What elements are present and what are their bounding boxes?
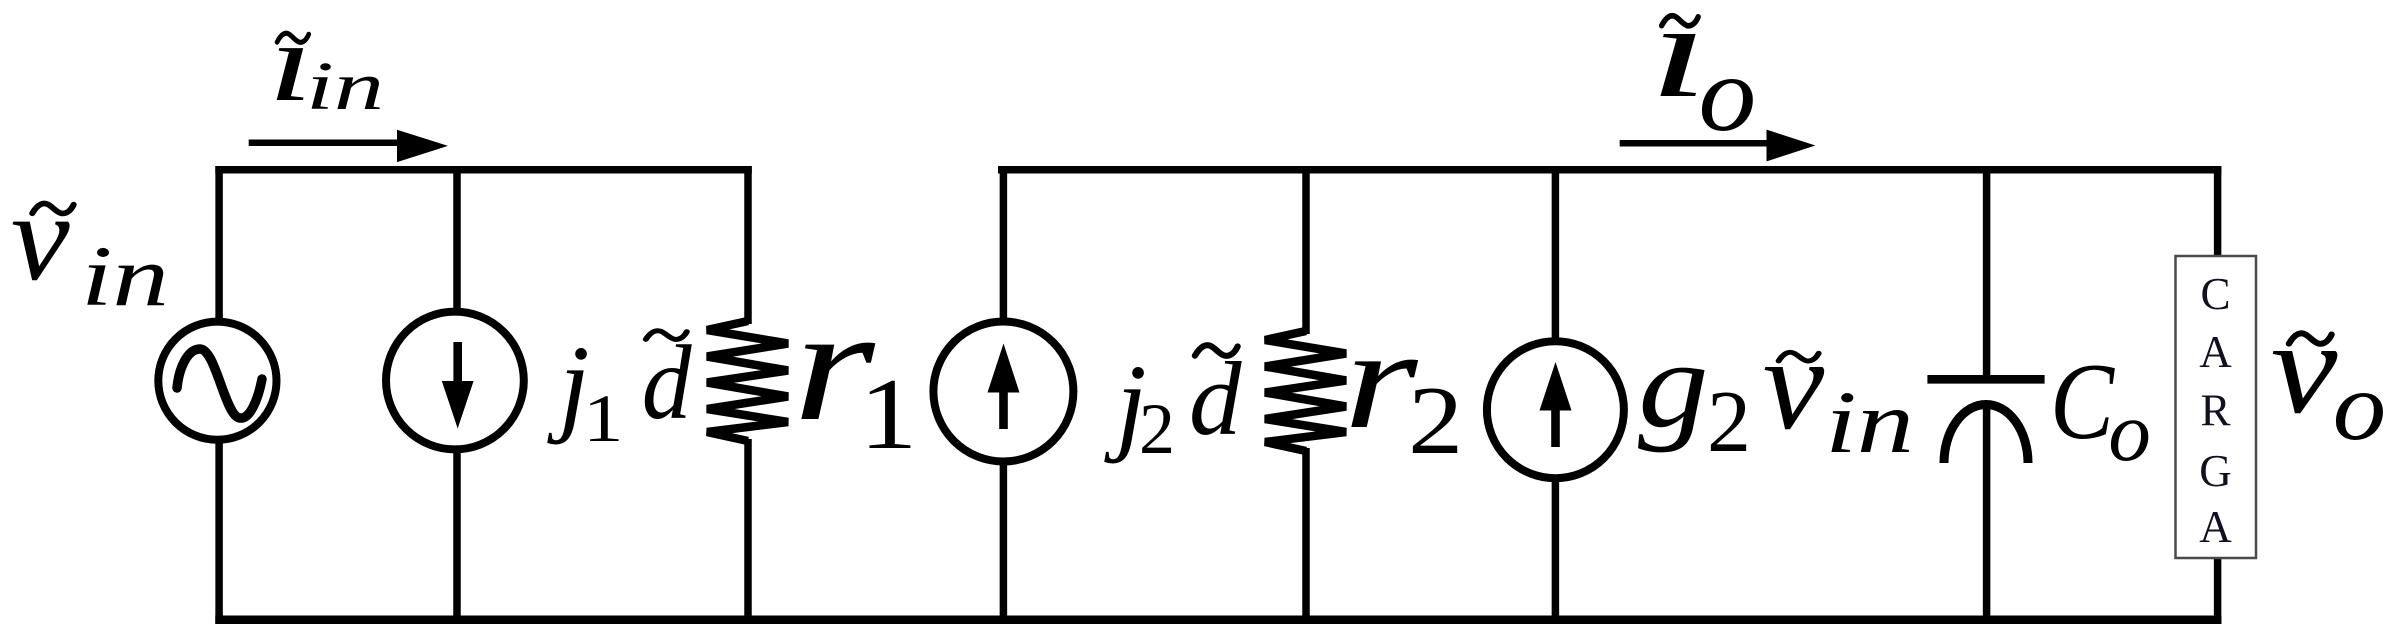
svg-text:G: G	[2199, 446, 2232, 496]
current source G2 arrow	[1540, 362, 1572, 447]
svg-text:in: in	[1825, 374, 1914, 472]
svg-text:d: d	[1189, 340, 1242, 457]
svg-text:v: v	[11, 167, 71, 306]
wire r1 branch lower	[744, 439, 752, 624]
wire left vertical upper	[215, 166, 223, 320]
svg-text:C: C	[2200, 269, 2230, 319]
label i_in tilde	[277, 33, 309, 42]
wire Co branch upper	[1983, 166, 1991, 379]
label d tilde over d (j2)	[1195, 345, 1238, 356]
svg-text:v: v	[2271, 294, 2338, 441]
wire top right section	[998, 166, 2221, 174]
svg-text:A: A	[2199, 327, 2232, 377]
svg-text:2: 2	[1408, 367, 1463, 474]
label d tilde over d (j1)	[646, 331, 687, 340]
wire r2 branch lower	[1302, 448, 1310, 624]
svg-text:d: d	[642, 324, 692, 441]
label v_in tilde	[32, 204, 73, 214]
wire r1 branch upper	[744, 166, 752, 324]
AC source sine wave	[177, 349, 262, 418]
svg-text:2: 2	[1139, 389, 1175, 469]
wire Co branch lower	[1983, 404, 1991, 624]
svg-text:o: o	[2108, 385, 2151, 479]
label g2 v tilde	[1779, 352, 1819, 361]
current source G2 circle	[1487, 341, 1624, 478]
wire load branch upper	[2214, 166, 2222, 258]
wire J1 branch upper	[453, 166, 461, 310]
svg-text:in: in	[81, 228, 169, 324]
svg-text:1: 1	[583, 381, 623, 457]
current source J1 arrow	[442, 342, 474, 429]
svg-text:A: A	[2199, 502, 2232, 552]
wire J2 branch upper	[1000, 166, 1008, 321]
svg-text:C: C	[2050, 342, 2115, 462]
load box CARGA	[2176, 256, 2257, 558]
current source J2 arrow	[988, 344, 1020, 430]
wire G2 branch lower	[1552, 478, 1560, 624]
wire top left section	[215, 166, 752, 174]
wire J1 branch lower	[453, 451, 461, 624]
svg-text:1: 1	[859, 358, 917, 471]
wire left vertical lower	[215, 442, 223, 624]
wire bottom rail	[215, 615, 2221, 624]
current arrow i_o	[1620, 130, 1816, 162]
svg-text:o: o	[2333, 353, 2386, 461]
wire r2 branch upper	[1302, 166, 1310, 334]
current arrow i_in	[249, 130, 448, 162]
svg-text:g: g	[1638, 316, 1709, 453]
svg-text:R: R	[2200, 386, 2230, 436]
wire load branch lower	[2214, 557, 2222, 624]
wire J2 branch lower	[1000, 462, 1008, 624]
svg-text:r: r	[1344, 300, 1419, 458]
capacitor Co curved plate	[1944, 405, 2028, 463]
wire G2 branch upper	[1552, 166, 1560, 340]
AC source Vin circle	[158, 322, 276, 440]
current source J2 circle	[933, 322, 1073, 462]
svg-text:v: v	[1763, 310, 1825, 457]
capacitor Co top plate	[1927, 375, 2044, 384]
current source J1 circle	[386, 312, 524, 450]
resistor r1 zigzag	[707, 321, 788, 441]
label i_o tilde	[1662, 16, 1699, 26]
svg-text:2: 2	[1707, 374, 1751, 471]
svg-text:in: in	[306, 48, 384, 124]
svg-text:o: o	[1699, 34, 1757, 154]
resistor r2 zigzag	[1265, 331, 1346, 451]
label v_o tilde	[2289, 333, 2332, 343]
